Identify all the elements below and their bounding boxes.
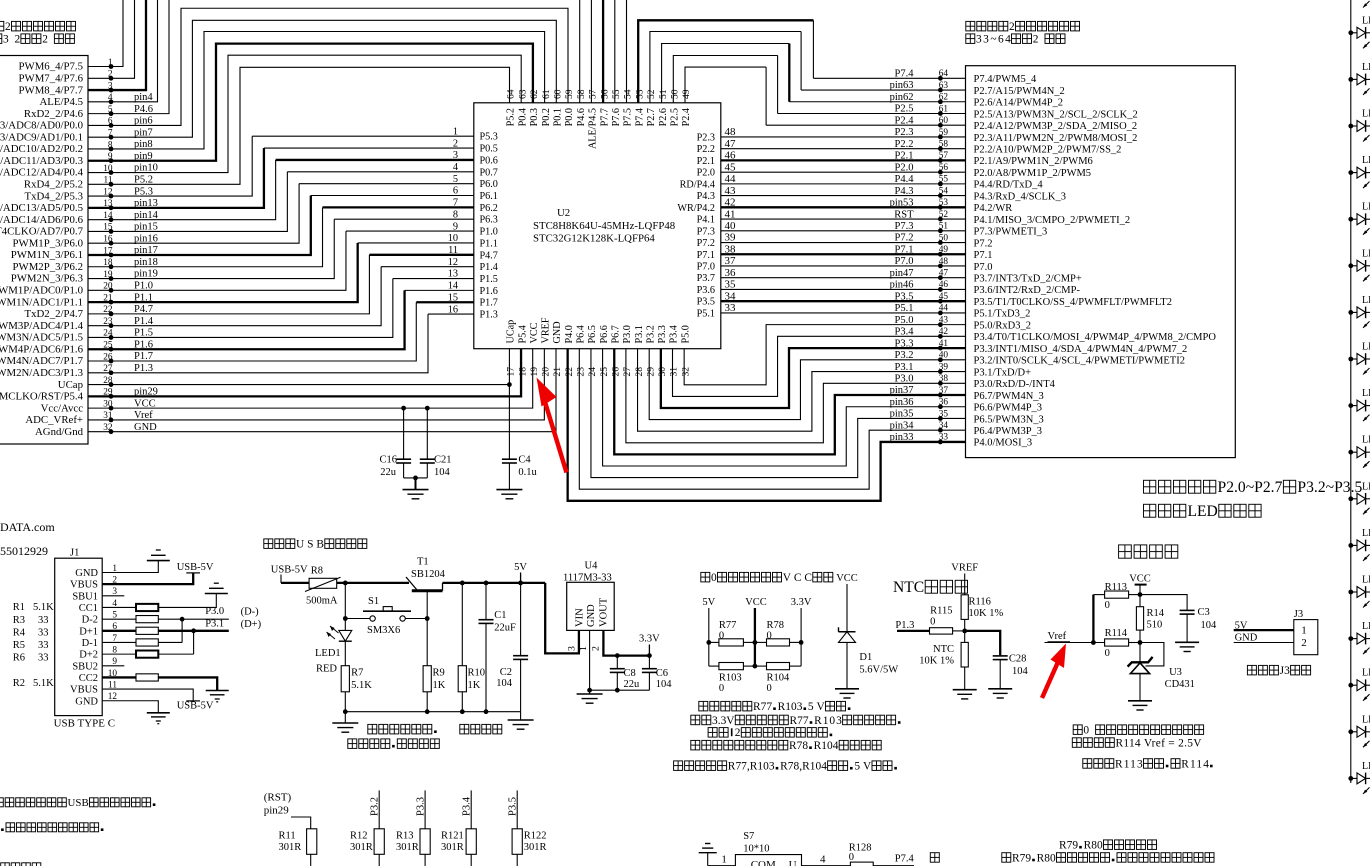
wire left pin 10 via top bus to IC pin 63 [88, 55, 521, 172]
wire R113 to Vref (bold) [1092, 595, 1094, 643]
svg-text:P2.4/A12/PWM3P_2/SDA_2/MISO_2: P2.4/A12/PWM3P_2/SDA_2/MISO_2 [974, 121, 1138, 132]
svg-text:P6.7: P6.7 [610, 325, 621, 343]
svg-text:24: 24 [587, 367, 598, 377]
LED D10 right column [1348, 435, 1370, 468]
capacitor C16 [401, 406, 406, 411]
svg-text:pin63: pin63 [890, 80, 914, 91]
svg-text:54: 54 [623, 89, 634, 99]
ground below U4 [589, 690, 591, 693]
svg-text:P6.6: P6.6 [599, 325, 610, 343]
svg-text:R104: R104 [767, 673, 791, 684]
svg-text:0: 0 [719, 683, 724, 694]
svg-text:LED: LED [1188, 503, 1218, 520]
wire IC pin 47 to right connector pin 58 [721, 148, 966, 150]
svg-text:LE: LE [1362, 295, 1370, 306]
wire U4 GND to ground [589, 630, 591, 690]
svg-text:U2: U2 [557, 207, 570, 219]
svg-text:T4CLKO/AD7/P0.7: T4CLKO/AD7/P0.7 [0, 226, 84, 238]
svg-text:P2.5/A13/PWM3N_2/SCL_2/SCLK_2: P2.5/A13/PWM3N_2/SCL_2/SCLK_2 [974, 109, 1138, 120]
svg-text:5.1K: 5.1K [351, 680, 372, 691]
svg-text:P5.0/RxD3_2: P5.0/RxD3_2 [974, 320, 1031, 331]
svg-text:8: 8 [453, 209, 458, 220]
LED D8 right column [1348, 342, 1370, 375]
svg-text:P/ADC10/AD2/P0.2: P/ADC10/AD2/P0.2 [0, 143, 83, 155]
svg-text:STC32G12K128K-LQFP64: STC32G12K128K-LQFP64 [533, 233, 655, 245]
wire J1 pin1 GND [102, 561, 158, 573]
LED D1 right column [1348, 15, 1370, 48]
wire IC pin 36 to right connector pin 47 [721, 277, 966, 279]
svg-text:PWM1P_3/P6.0: PWM1P_3/P6.0 [13, 237, 84, 249]
svg-text:USB-5V: USB-5V [177, 700, 214, 711]
ground bottom-right power [520, 712, 522, 720]
svg-text:41: 41 [939, 339, 949, 349]
svg-text:SBU1: SBU1 [72, 591, 98, 602]
capacitor C6 [648, 656, 650, 668]
svg-text:59: 59 [939, 128, 949, 138]
svg-text:C2: C2 [500, 667, 512, 678]
ground below U3 [1128, 700, 1152, 702]
svg-text:P5.1: P5.1 [895, 303, 914, 314]
svg-text:D+2: D+2 [79, 650, 98, 661]
svg-text:P3.3: P3.3 [895, 338, 914, 349]
svg-text:61: 61 [939, 104, 949, 114]
svg-text:C6: C6 [656, 668, 668, 679]
svg-text:P3.2~P3.5: P3.2~P3.5 [1297, 479, 1362, 496]
svg-text:P4.7: P4.7 [480, 250, 498, 261]
wire J1 pin3 SBU1 stub [102, 595, 124, 597]
LED D16 right column [1348, 714, 1370, 747]
svg-text:5: 5 [453, 174, 458, 185]
partial LED arrow at top edge [1363, 1, 1370, 8]
svg-text:P/ADC12/AD4/P0.4: P/ADC12/AD4/P0.4 [0, 167, 84, 179]
svg-text:P2.3: P2.3 [895, 127, 914, 138]
svg-text:P7.1: P7.1 [697, 250, 715, 261]
svg-text:P1.5: P1.5 [480, 274, 498, 285]
svg-text:PWM2N/ADC3/P1.3: PWM2N/ADC3/P1.3 [0, 367, 83, 379]
svg-text:R114: R114 [1105, 628, 1128, 639]
wire left pin 5 up off-sheet [88, 0, 169, 114]
svg-text:NTC: NTC [893, 579, 924, 596]
wire U4 VOUT 3.3V [603, 630, 649, 655]
svg-text:RED: RED [316, 663, 337, 674]
wire IC pin 37 to right connector pin 48 [721, 265, 966, 267]
wire left pin 27 to IC pin 16 [88, 314, 428, 373]
svg-text:P3.1/TxD/D+: P3.1/TxD/D+ [974, 367, 1032, 378]
svg-text:R11: R11 [279, 831, 296, 842]
svg-text:U: U [789, 859, 797, 866]
svg-text:P2.5: P2.5 [895, 104, 914, 115]
shunt reference U3 CD431 [1139, 643, 1141, 663]
svg-text:UCap: UCap [506, 320, 517, 344]
svg-text:C8: C8 [624, 668, 636, 679]
svg-text:pin47: pin47 [890, 268, 914, 279]
svg-text:P6.3: P6.3 [480, 215, 498, 226]
wire R128 to P7.4 [873, 865, 914, 866]
svg-text:P2.6/A14/PWM4P_2: P2.6/A14/PWM4P_2 [974, 98, 1064, 109]
svg-text:VREF: VREF [541, 317, 552, 343]
svg-text:U3: U3 [1169, 667, 1182, 678]
note ref voltage lines [1073, 725, 1082, 735]
svg-text:LE: LE [1362, 668, 1370, 679]
svg-text:PWM1N/ADC1/P1.1: PWM1N/ADC1/P1.1 [0, 296, 83, 308]
svg-text:41: 41 [725, 208, 736, 220]
svg-text:19: 19 [529, 367, 540, 377]
svg-text:LE: LE [1362, 388, 1370, 399]
LED D17 right column [1348, 761, 1370, 794]
svg-text:500mA: 500mA [306, 596, 338, 607]
svg-text:2: 2 [591, 646, 602, 651]
svg-text:57: 57 [588, 89, 599, 99]
svg-text:P4.3: P4.3 [697, 191, 715, 202]
svg-text:RD/P4.4: RD/P4.4 [680, 179, 715, 190]
svg-text:4: 4 [820, 854, 826, 866]
svg-text:31: 31 [669, 367, 680, 377]
note switch usage [368, 724, 377, 734]
svg-text:P2.6: P2.6 [658, 108, 669, 126]
wire IC pin 24 to right connector pin 35 [591, 349, 966, 478]
svg-text:P2.7: P2.7 [646, 108, 657, 126]
svg-text:LE: LE [1362, 15, 1370, 26]
wire IC pin 51 to right connector pin 62 [662, 44, 790, 103]
svg-text:0: 0 [930, 617, 935, 628]
svg-text:10: 10 [448, 233, 458, 244]
wire left pin 32 to IC bottom pin 21 [88, 349, 556, 432]
svg-text:4: 4 [453, 162, 458, 173]
svg-text:7: 7 [453, 198, 458, 209]
power flag 3.3V [648, 645, 650, 656]
svg-text:P3.7: P3.7 [697, 273, 715, 284]
svg-text:55012929: 55012929 [0, 544, 48, 558]
svg-text:2: 2 [1033, 34, 1039, 46]
svg-text:D+1: D+1 [79, 626, 98, 637]
svg-text:P2.3/A11/PWM2N_2/PWM8/MOSI_2: P2.3/A11/PWM2N_2/PWM8/MOSI_2 [974, 133, 1138, 144]
wire IC pin 29 to right connector pin 40 [649, 349, 965, 420]
svg-text:47: 47 [939, 269, 949, 279]
svg-text:55: 55 [939, 175, 949, 185]
svg-text:Vcc/Avcc: Vcc/Avcc [41, 402, 84, 414]
svg-text:44: 44 [939, 304, 949, 314]
svg-text:63: 63 [517, 89, 528, 99]
wire left pin 2 up off-sheet [88, 0, 135, 78]
svg-text:CD431: CD431 [1165, 679, 1195, 690]
svg-text:104: 104 [496, 678, 513, 689]
wire left pin 19 to IC pin 8 [88, 219, 334, 278]
LED D4 right column [1348, 155, 1370, 188]
capacitor C4 on UCap [508, 349, 510, 459]
note speed discharge [460, 724, 469, 734]
svg-text:pin62: pin62 [890, 92, 914, 103]
svg-text:104: 104 [656, 679, 673, 690]
wire J1 pin2 VBUS USB-5V [102, 573, 193, 584]
svg-text:301R: 301R [396, 842, 419, 853]
svg-text:15: 15 [448, 292, 458, 303]
svg-text:22uF: 22uF [494, 623, 516, 634]
thermistor NTC [964, 631, 966, 643]
resistor R116 [961, 595, 968, 620]
svg-text:R114 Vref = 2.5V: R114 Vref = 2.5V [1116, 737, 1203, 749]
svg-text:P1.4: P1.4 [480, 262, 498, 273]
wire LED column rail [1350, 0, 1352, 783]
svg-text:P2.1: P2.1 [895, 151, 914, 162]
svg-text:P7.7: P7.7 [599, 108, 610, 126]
wire left pin 3 up off-sheet [88, 0, 146, 90]
svg-text:2: 2 [42, 34, 48, 46]
wire left pin 6 via top bus to IC pin 59 [88, 8, 568, 125]
svg-text:PWM8_4/P7.7: PWM8_4/P7.7 [19, 84, 84, 96]
svg-text:1: 1 [721, 854, 727, 866]
svg-text:28: 28 [634, 367, 645, 377]
resistor R13 [424, 790, 426, 828]
svg-text:P2.0~P2.7: P2.0~P2.7 [1218, 479, 1283, 496]
svg-text:P3.3: P3.3 [657, 325, 668, 343]
LED LED1 RED [344, 583, 346, 631]
wire IC pin 50 to right connector pin 61 [673, 56, 777, 103]
wire IC pin 52 to right connector pin 63 [650, 32, 801, 103]
svg-text:R78: R78 [767, 620, 785, 631]
svg-text:pin36: pin36 [890, 397, 914, 408]
svg-text:P6.2: P6.2 [480, 203, 498, 214]
svg-text:P2.2/A10/PWM2P_2/PWM7/SS_2: P2.2/A10/PWM2P_2/PWM7/SS_2 [974, 144, 1122, 155]
svg-text:42: 42 [939, 327, 949, 337]
junction D+ pair [193, 631, 195, 654]
svg-text:5V: 5V [808, 701, 826, 713]
svg-text:10K 1%: 10K 1% [969, 608, 1004, 619]
svg-text:1: 1 [578, 646, 589, 651]
svg-text:52: 52 [646, 89, 657, 99]
svg-text:pin53: pin53 [890, 198, 914, 209]
svg-text:P0.6: P0.6 [480, 155, 498, 166]
svg-text:52: 52 [939, 210, 949, 220]
svg-text:P7.1: P7.1 [974, 250, 993, 261]
svg-text:1K: 1K [468, 680, 481, 691]
ground below C3 [1175, 641, 1199, 643]
resistor R9 [423, 666, 431, 692]
svg-text:39: 39 [725, 232, 737, 244]
svg-text:P4.4: P4.4 [895, 174, 915, 185]
ground at CC2 [206, 690, 229, 692]
svg-text:53: 53 [939, 198, 949, 208]
LED D9 right column [1348, 388, 1370, 421]
svg-text:9: 9 [453, 221, 458, 232]
wire IC pin 28 to right connector pin 39 [638, 349, 966, 432]
svg-text:PWM7_4/P7.6: PWM7_4/P7.6 [19, 72, 84, 84]
svg-text:P7.4: P7.4 [895, 69, 915, 80]
svg-text:P7.4: P7.4 [634, 108, 645, 126]
wire left pin 28 UCap to IC pin 17 junction [88, 384, 509, 386]
svg-text:60: 60 [553, 89, 564, 99]
connector J1 USB TYPE C box [55, 558, 102, 715]
svg-text:1: 1 [1301, 625, 1307, 637]
svg-text:(D+): (D+) [241, 619, 262, 630]
wire left pin 11 via top bus to IC pin 64 [88, 67, 510, 184]
svg-text:R12: R12 [350, 831, 368, 842]
wire IC pin 46 to right connector pin 57 [721, 159, 966, 161]
wire pin29 to R11 [291, 817, 311, 829]
svg-text:R1: R1 [13, 602, 25, 613]
svg-text:R10: R10 [468, 668, 486, 679]
svg-text:R6: R6 [13, 653, 25, 664]
svg-text:P5.0: P5.0 [895, 315, 914, 326]
wire left pin 24 to IC pin 13 [88, 279, 393, 338]
svg-text:USB-5V: USB-5V [271, 565, 308, 576]
ground below C4 [496, 489, 522, 491]
svg-text:33: 33 [38, 653, 49, 664]
resistor R10 [461, 583, 463, 666]
svg-text:VCC: VCC [529, 322, 540, 343]
svg-text:5V: 5V [514, 562, 527, 573]
svg-text:48: 48 [725, 126, 737, 138]
svg-text:pin35: pin35 [890, 409, 914, 420]
svg-text:3.3V: 3.3V [639, 634, 660, 645]
svg-text:0: 0 [1105, 648, 1110, 659]
wire+resistor J1 pin6 D+1 [102, 630, 136, 632]
svg-text:6: 6 [453, 186, 458, 197]
wire left pin 26 to IC pin 15 [88, 302, 416, 361]
capacitor C1 [485, 583, 487, 619]
svg-text:R78: R78 [789, 740, 808, 752]
svg-text:P7.0: P7.0 [974, 262, 993, 273]
LED D2 right column [1348, 62, 1370, 95]
svg-text:3: 3 [567, 646, 578, 651]
svg-text:10*10: 10*10 [743, 844, 769, 855]
wire IC pin 25 to right connector pin 36 [603, 349, 966, 466]
LED D14 right column [1348, 621, 1370, 654]
svg-text:GND: GND [1235, 633, 1258, 644]
wire C16 C21 common to ground [404, 477, 428, 479]
svg-text:P2.4: P2.4 [681, 108, 692, 126]
svg-text:GND: GND [75, 568, 98, 579]
svg-text:P7.4/PWM5_4: P7.4/PWM5_4 [974, 74, 1037, 85]
svg-text:P3.2: P3.2 [645, 325, 656, 343]
svg-text:P4.0/MOSI_3: P4.0/MOSI_3 [974, 438, 1033, 449]
svg-text:STC8H8K64U-45MHz-LQFP48: STC8H8K64U-45MHz-LQFP48 [533, 220, 675, 232]
svg-text:R122: R122 [524, 831, 547, 842]
ground bottom-left power [344, 712, 346, 723]
svg-text:R103: R103 [719, 673, 742, 684]
ground below NTC [953, 689, 977, 691]
svg-text:VCC: VCC [836, 573, 858, 584]
svg-text:2: 2 [5, 21, 11, 33]
svg-text:RST: RST [894, 209, 914, 220]
svg-text:P4.1/MISO_3/CMPO_2/PWMETI_2: P4.1/MISO_3/CMPO_2/PWMETI_2 [974, 215, 1131, 226]
ground below D1 [835, 688, 859, 690]
connector J-right 64..33 box [966, 66, 1236, 458]
svg-text:23: 23 [576, 367, 587, 377]
wire IC pin 45 to right connector pin 56 [721, 171, 966, 173]
wire IC top pin 56 off-sheet [602, 0, 604, 103]
svg-text:P0.3: P0.3 [529, 108, 540, 126]
wire left pin 16 to IC pin 5 [88, 184, 299, 244]
red arrow pointing at Vref [1042, 644, 1066, 699]
svg-text:43: 43 [725, 185, 737, 197]
resistor R12 [378, 790, 380, 828]
svg-text:USB-5V: USB-5V [177, 562, 214, 573]
svg-text:P3.5/T1/T0CLKO/SS_4/PWMFLT/PWM: P3.5/T1/T0CLKO/SS_4/PWMFLT/PWMFLT2 [974, 297, 1172, 308]
svg-text:40: 40 [725, 220, 737, 232]
svg-text:33: 33 [38, 640, 49, 651]
svg-text:pin37: pin37 [890, 385, 914, 396]
svg-text:P/ADC14/AD6/P0.6: P/ADC14/AD6/P0.6 [0, 214, 84, 226]
svg-text:VIN: VIN [575, 608, 586, 627]
capacitor C2 [520, 583, 522, 655]
svg-text:32: 32 [680, 367, 691, 377]
note bottom right [930, 853, 939, 863]
svg-text:33: 33 [38, 627, 49, 638]
svg-text:17: 17 [506, 367, 517, 377]
svg-text:P/ADC11/AD3/P0.3: P/ADC11/AD3/P0.3 [0, 155, 83, 167]
svg-text:56: 56 [939, 163, 949, 173]
svg-text:55: 55 [611, 89, 622, 99]
svg-text:pin33: pin33 [890, 432, 914, 443]
svg-text:P3.4/T0/T1CLKO/MOSI_4/PWM4P_4/: P3.4/T0/T1CLKO/MOSI_4/PWM4P_4/PWM8_2/CMP… [974, 332, 1217, 343]
svg-text:60: 60 [939, 116, 949, 126]
svg-text:C3: C3 [1198, 607, 1210, 618]
svg-text:GND: GND [586, 604, 597, 627]
svg-text:P6.5: P6.5 [587, 325, 598, 343]
wire IC top pin 55 off-sheet [614, 0, 616, 103]
svg-text:0: 0 [711, 572, 717, 584]
svg-text:P1.6: P1.6 [480, 286, 498, 297]
svg-text:3.3V: 3.3V [712, 715, 735, 727]
svg-text:RxD4_2/P5.2: RxD4_2/P5.2 [24, 179, 83, 191]
svg-text:C21: C21 [434, 455, 452, 466]
wire IC pin 27 to right connector pin 38 [626, 349, 966, 443]
svg-text:0.1u: 0.1u [518, 467, 537, 478]
svg-text:LE: LE [1362, 761, 1370, 772]
LED D15 right column [1348, 668, 1370, 701]
wire IC top pin 58 off-sheet [579, 0, 581, 103]
svg-text:USB: USB [296, 539, 324, 551]
svg-text:P2.0: P2.0 [697, 168, 715, 179]
svg-text:R104: R104 [814, 740, 839, 752]
wire IC pin 42 to right connector pin 53 [721, 206, 966, 208]
svg-text:P5.1/TxD3_2: P5.1/TxD3_2 [974, 309, 1031, 320]
svg-text:PWM3N/ADC5/P1.5: PWM3N/ADC5/P1.5 [0, 332, 83, 344]
svg-text:39: 39 [939, 362, 949, 372]
svg-text:5V: 5V [854, 761, 872, 773]
svg-text:P7.3/PWMETI_3: P7.3/PWMETI_3 [974, 227, 1048, 238]
resistor R104 [754, 642, 756, 666]
svg-text:P3.0: P3.0 [622, 325, 633, 343]
svg-text:P2.4: P2.4 [895, 115, 915, 126]
svg-text:21: 21 [552, 367, 563, 377]
junction D- pair [181, 619, 183, 642]
svg-text:63: 63 [939, 81, 949, 91]
wire IC pin 39 to right connector pin 50 [721, 242, 966, 244]
svg-text:P2.2: P2.2 [697, 144, 715, 155]
svg-text:P3.0: P3.0 [205, 606, 224, 617]
svg-text:PWM4P/ADC6/P1.6: PWM4P/ADC6/P1.6 [0, 343, 84, 355]
svg-text:29: 29 [645, 367, 656, 377]
wire left pin 7 via top bus to IC pin 60 [88, 20, 556, 137]
svg-text:P5.1: P5.1 [697, 308, 715, 319]
svg-text:P2.5: P2.5 [670, 108, 681, 126]
svg-text:R114: R114 [1181, 758, 1209, 770]
svg-text:2: 2 [1009, 21, 1015, 33]
svg-text:R80: R80 [1084, 840, 1103, 852]
wire IC pin 35 to right connector pin 46 [721, 288, 966, 290]
svg-text:(RST): (RST) [264, 792, 292, 804]
svg-text:GND: GND [75, 696, 98, 707]
svg-text:0: 0 [849, 852, 854, 863]
svg-text:P4.0: P4.0 [564, 325, 575, 343]
svg-text:CC2: CC2 [79, 673, 98, 684]
svg-text:J3: J3 [1294, 609, 1303, 620]
wire left pin 14 to IC pin 3 [88, 160, 276, 220]
wire left pin 31 to IC bottom pin 20 [88, 349, 544, 420]
svg-text:P0.0: P0.0 [564, 108, 575, 126]
wire left pin 17 to IC pin 6 [88, 196, 311, 255]
